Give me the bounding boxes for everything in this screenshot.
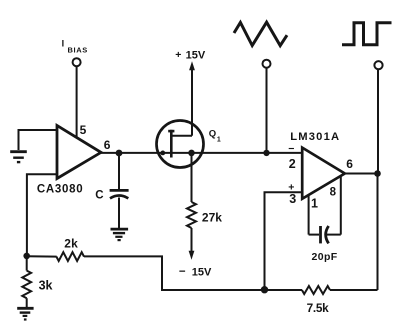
wire square terminal to output node [377,70,379,174]
svg-text:5: 5 [80,123,87,137]
wire triangle terminal to inverting input [266,68,268,153]
node Q1 drain-output [188,150,195,157]
wire rail step to 2k [84,256,265,290]
resistor 7.5k [302,286,330,294]
terminal square output [374,61,382,69]
node non-inverting junction [261,286,268,293]
capacitor C [110,153,129,228]
terminal triangle output [263,60,271,68]
wire non-inverting input LM301A [265,192,303,290]
wire Q1 to 27k [191,153,193,202]
wire 2k to junction [27,255,57,257]
symbol triangle wave [234,22,287,45]
wire non-inverting input [27,174,57,256]
ground (capacitor C) [111,229,129,240]
node inverting input LM301A [263,150,269,156]
wire +15V supply [191,68,193,136]
svg-text:BIAS: BIAS [68,46,88,55]
resistor 2k [56,252,84,261]
wire 27k to -15V [191,228,193,252]
capacitor 20pF [309,226,341,243]
svg-text:−: − [288,143,294,155]
svg-text:−: − [179,266,186,278]
svg-text:C: C [95,189,103,201]
node Q1 source [160,151,165,156]
svg-text:CA3080: CA3080 [37,183,83,195]
node CA3080 output [116,150,123,157]
wire output node down [377,174,379,291]
node feedback junction [23,253,30,260]
pin 8 stub [340,176,342,235]
ground (3k) [17,308,33,319]
svg-text:1: 1 [311,197,318,211]
svg-text:3: 3 [289,192,296,206]
svg-text:2k: 2k [64,236,78,250]
op-amp U2 LM301A [302,148,345,199]
wire output rail [101,152,302,154]
svg-text:1: 1 [217,137,221,144]
ground (CA3080 input) [10,152,27,162]
wire inverting input to ground [19,130,58,150]
resistor 27k [187,202,196,228]
op-amp U1 CA3080 [57,126,101,179]
svg-text:Q: Q [209,129,216,140]
svg-text:15V: 15V [186,49,206,61]
pin 1 stub [308,195,310,235]
transistor Q1 [157,121,204,168]
svg-text:8: 8 [330,186,337,198]
svg-text:3k: 3k [39,278,53,292]
resistor 3k [22,256,31,307]
wire I_BIAS to pin 5 [76,67,78,138]
terminal I_BIAS [73,58,81,66]
wire LM301A output [345,173,378,175]
wire bottom rail to junction [265,289,303,291]
svg-text:6: 6 [346,157,353,171]
wire bottom rail right [330,289,378,291]
svg-text:7.5k: 7.5k [307,301,329,315]
svg-text:+: + [175,49,181,61]
svg-text:I: I [62,38,65,48]
svg-text:27k: 27k [202,211,222,225]
svg-text:15V: 15V [192,266,212,278]
svg-text:LM301A: LM301A [290,131,340,143]
symbol square wave [342,23,392,45]
svg-text:2: 2 [289,157,296,171]
svg-text:20pF: 20pF [312,251,338,263]
svg-text:6: 6 [104,138,111,152]
node output [374,170,381,177]
